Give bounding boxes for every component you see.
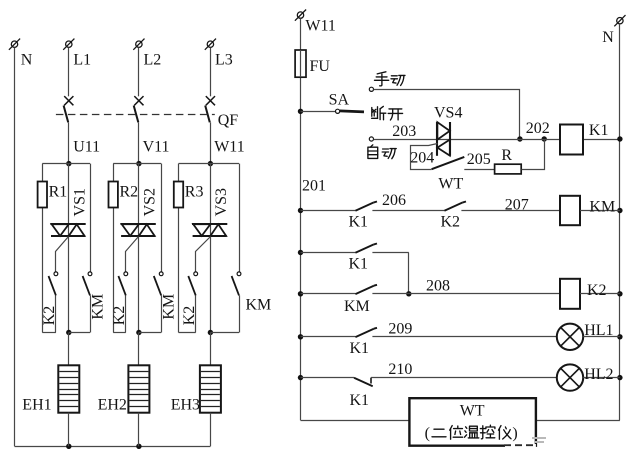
svg-text:VS2: VS2 bbox=[141, 188, 158, 216]
svg-text:L2: L2 bbox=[144, 52, 162, 69]
svg-text:L1: L1 bbox=[73, 52, 91, 69]
svg-text:K1: K1 bbox=[349, 255, 369, 272]
svg-text:K2: K2 bbox=[441, 213, 461, 230]
svg-text:209: 209 bbox=[388, 321, 412, 338]
svg-text:EH1: EH1 bbox=[22, 397, 51, 414]
svg-text:L3: L3 bbox=[215, 52, 233, 69]
svg-text:210: 210 bbox=[388, 361, 412, 378]
svg-text:N: N bbox=[602, 29, 614, 46]
svg-text:207: 207 bbox=[505, 197, 529, 214]
svg-text:EH3: EH3 bbox=[171, 397, 200, 414]
svg-text:K1: K1 bbox=[350, 392, 370, 409]
svg-text:R: R bbox=[501, 147, 512, 164]
svg-text:208: 208 bbox=[426, 278, 450, 295]
svg-text:HL2: HL2 bbox=[584, 366, 613, 383]
svg-text:U11: U11 bbox=[73, 139, 100, 156]
svg-text:KM: KM bbox=[89, 294, 106, 320]
svg-text:R3: R3 bbox=[185, 183, 204, 200]
svg-text:HL1: HL1 bbox=[584, 322, 613, 339]
svg-text:K2: K2 bbox=[587, 282, 607, 299]
svg-text:K1: K1 bbox=[349, 213, 369, 230]
svg-text:KM: KM bbox=[589, 198, 615, 215]
svg-text:K1: K1 bbox=[350, 340, 370, 357]
svg-text:WT: WT bbox=[438, 176, 463, 193]
svg-text:): ) bbox=[512, 425, 517, 442]
svg-text:K1: K1 bbox=[589, 122, 609, 139]
svg-text:VS3: VS3 bbox=[213, 188, 230, 216]
svg-text:204: 204 bbox=[410, 150, 434, 167]
svg-text:202: 202 bbox=[526, 120, 550, 137]
svg-text:SA: SA bbox=[329, 91, 350, 108]
svg-text:R1: R1 bbox=[49, 183, 68, 200]
svg-text:(: ( bbox=[425, 425, 430, 442]
svg-text:KM: KM bbox=[344, 298, 370, 315]
svg-text:203: 203 bbox=[392, 123, 416, 140]
svg-text:N: N bbox=[21, 52, 33, 69]
svg-text:KM: KM bbox=[246, 296, 272, 313]
svg-text:K2: K2 bbox=[41, 306, 58, 326]
svg-text:206: 206 bbox=[382, 192, 406, 209]
svg-text:EH2: EH2 bbox=[98, 397, 127, 414]
svg-text:VS4: VS4 bbox=[434, 104, 462, 121]
svg-text:W11: W11 bbox=[305, 18, 336, 35]
svg-text:205: 205 bbox=[467, 151, 491, 168]
svg-text:QF: QF bbox=[218, 112, 239, 129]
svg-text:K2: K2 bbox=[181, 306, 198, 326]
svg-text:W11: W11 bbox=[214, 139, 245, 156]
svg-text:WT: WT bbox=[460, 403, 485, 420]
svg-text:V11: V11 bbox=[143, 139, 170, 156]
svg-text:FU: FU bbox=[310, 58, 331, 75]
svg-text:KM: KM bbox=[161, 294, 178, 320]
svg-text:K2: K2 bbox=[111, 306, 128, 326]
svg-text:201: 201 bbox=[302, 178, 326, 195]
svg-text:R2: R2 bbox=[120, 183, 139, 200]
svg-text:VS1: VS1 bbox=[71, 188, 88, 216]
